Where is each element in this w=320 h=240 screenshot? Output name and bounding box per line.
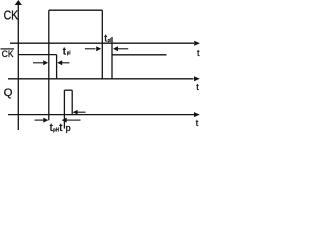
Q pulse rising edge + reference down xyxy=(63,90,65,128)
Q pulse top xyxy=(64,89,72,91)
svg-text:p: p xyxy=(66,123,71,133)
svg-text:pH: pH xyxy=(53,127,59,133)
right arrow time axis 3 xyxy=(194,112,200,117)
CK pulse top xyxy=(49,9,103,11)
time axis 2 (CKbar row) xyxy=(8,78,194,80)
left arrow at Q falling edge xyxy=(76,111,86,113)
CKbar falling edge xyxy=(56,55,58,79)
CK rising edge + reference line down xyxy=(48,10,50,120)
left-pointing arrow xyxy=(118,48,129,50)
label CKbar with overline xyxy=(1,48,15,50)
CKbar high level right xyxy=(112,54,167,56)
svg-text:CK: CK xyxy=(2,49,14,59)
right arrow time axis 2 xyxy=(194,76,200,81)
axis arrowheads xyxy=(15,0,200,117)
up arrow on value axis xyxy=(15,0,22,5)
svg-text:pl: pl xyxy=(67,50,71,56)
svg-text:pl: pl xyxy=(108,38,112,44)
dimension arrows row 2 : t_pl at CK rising edge xyxy=(33,60,69,65)
time axis 3 (Q row) xyxy=(8,114,194,116)
svg-text:t: t xyxy=(63,47,66,58)
Q pulse falling edge xyxy=(71,90,73,114)
dimension arrows row 3 : bottom, t_pH and t_p xyxy=(35,110,86,123)
vertical value axis xyxy=(17,3,19,131)
right-pointing arrow xyxy=(85,48,96,50)
svg-text:Q: Q xyxy=(4,87,13,99)
dimension arrows row 1 : t_pl at CK falling edge xyxy=(85,46,128,51)
CK falling edge + reference line down xyxy=(101,10,103,79)
CKbar high level left xyxy=(18,54,56,56)
right arrow time axis 1 xyxy=(194,41,200,46)
CKbar rising edge + reference up xyxy=(111,37,113,79)
time axis 1 (CK row) xyxy=(10,42,194,44)
svg-text:CK: CK xyxy=(4,9,19,23)
